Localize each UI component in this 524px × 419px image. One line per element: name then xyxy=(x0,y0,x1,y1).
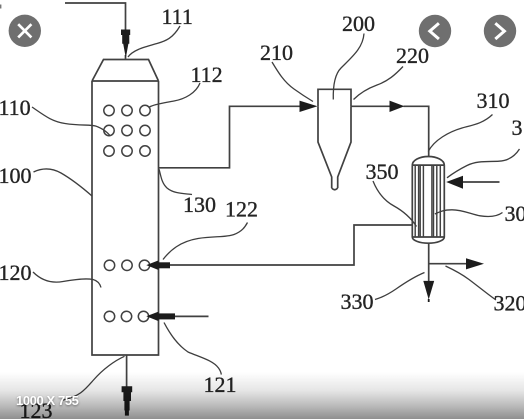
wire exchanger bottom outlet xyxy=(428,243,430,283)
next button xyxy=(484,15,516,47)
arrow on cyclone outlet xyxy=(390,101,405,112)
leader 123 xyxy=(62,356,125,400)
leader 122 xyxy=(163,223,248,260)
close button xyxy=(9,15,41,47)
leader 121 xyxy=(164,323,221,375)
lower holes row 121 xyxy=(104,311,148,321)
column C joint line xyxy=(92,80,159,82)
leader 350 xyxy=(373,181,417,227)
wire tube return to column xyxy=(170,225,412,265)
leader 310 xyxy=(428,115,492,152)
svg-text:310: 310 xyxy=(477,88,510,113)
wire feed drop into column xyxy=(125,55,127,60)
svg-text:3: 3 xyxy=(512,115,523,140)
arrow column bottom needle xyxy=(122,386,133,415)
arrow branch right 320 xyxy=(466,258,484,269)
svg-text:300: 300 xyxy=(505,201,524,226)
leader 210 xyxy=(272,62,313,102)
svg-text:210: 210 xyxy=(260,40,293,65)
wire lower inlet stub 121 xyxy=(174,315,209,317)
svg-text:200: 200 xyxy=(342,11,375,36)
leader 340 xyxy=(447,149,520,178)
arrow shell inlet (left pointing) xyxy=(446,176,463,189)
svg-text:130: 130 xyxy=(183,192,216,217)
svg-text:320: 320 xyxy=(494,291,524,316)
size caption xyxy=(16,394,79,408)
bottom gradient overlay xyxy=(0,372,524,419)
svg-text:100: 100 xyxy=(0,163,32,188)
leader 120 xyxy=(33,272,101,288)
leader 130 xyxy=(159,169,192,195)
heat exchanger 300 shell xyxy=(411,165,413,237)
prev button xyxy=(419,15,451,47)
leader 200 xyxy=(333,34,364,100)
column C top trapezoid xyxy=(92,60,159,82)
arrow exchanger bottom down xyxy=(423,281,434,300)
wire branch to 320 xyxy=(429,263,467,265)
exchanger tubes 350 xyxy=(415,165,440,237)
leader 100 xyxy=(34,169,93,196)
arrow return into column 122 xyxy=(146,260,158,270)
cyclone 200 body xyxy=(318,89,351,106)
leader 111 xyxy=(128,26,180,57)
leader 320 xyxy=(446,266,497,300)
arrow into cyclone xyxy=(300,101,318,112)
arrow feed needle xyxy=(121,30,130,59)
svg-text:122: 122 xyxy=(225,197,258,222)
wire shell inlet from right xyxy=(462,181,500,183)
svg-text:120: 120 xyxy=(0,260,32,285)
wire feed pipe top xyxy=(65,3,126,31)
leader 300 xyxy=(435,210,503,217)
arrow lower inlet 121 xyxy=(146,312,158,322)
leader 112 xyxy=(150,83,201,107)
edge mark xyxy=(0,5,1,9)
leader 220 xyxy=(354,67,404,100)
svg-text:110: 110 xyxy=(0,95,31,120)
column C body 100 xyxy=(92,81,159,355)
leader 330 xyxy=(375,273,425,300)
svg-text:350: 350 xyxy=(366,159,399,184)
svg-text:330: 330 xyxy=(341,289,374,314)
wire cyclone outlet 220 xyxy=(351,105,391,107)
leader 110 xyxy=(32,107,110,136)
wire column bottom outlet xyxy=(126,355,128,387)
upper spray holes 110 xyxy=(104,105,150,156)
lower holes row 122 xyxy=(104,260,149,270)
svg-text:220: 220 xyxy=(396,43,429,68)
wire gas outlet to cyclone xyxy=(159,106,301,168)
svg-text:112: 112 xyxy=(191,62,223,87)
svg-text:111: 111 xyxy=(162,4,193,29)
